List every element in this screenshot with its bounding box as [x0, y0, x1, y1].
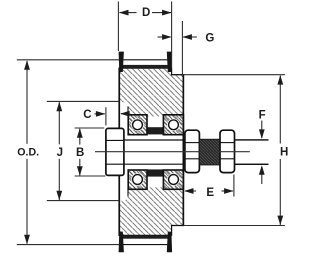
flange lip top-left [119, 52, 124, 72]
bore white region [120, 135, 183, 170]
svg-text:J: J [57, 147, 63, 159]
svg-text:B: B [76, 147, 84, 159]
bolt shank bottom edge [124, 163, 269, 165]
tooth band top (dark) [123, 65, 168, 68]
svg-text:H: H [280, 147, 288, 159]
hub recess channel (left, white) [120, 102, 128, 201]
svg-text:D: D [142, 7, 150, 19]
dimension O.D. [17, 60, 119, 245]
hatch top edge [119, 67, 172, 69]
svg-text:C: C [83, 109, 91, 121]
bolt shank top edge [124, 139, 269, 141]
svg-text:O.D.: O.D. [17, 146, 39, 158]
dimension E [184, 175, 234, 200]
threaded section [199, 139, 220, 165]
svg-text:G: G [205, 33, 214, 45]
pulley left face line [118, 68, 120, 236]
flange lip bottom-right [167, 232, 172, 253]
gap between bearings bottom (white) [148, 169, 163, 187]
body bottom face [171, 225, 184, 227]
hatch bottom edge [119, 234, 172, 236]
shaft centerline [95, 151, 250, 153]
dimension G [158, 21, 215, 74]
dimension D [118, 2, 171, 68]
gap between bearings top (white) [148, 117, 163, 135]
body top face [171, 74, 184, 76]
step vertical top [171, 68, 173, 76]
svg-text:F: F [259, 109, 266, 121]
flange tip line top [123, 59, 169, 61]
bearing top-right [163, 115, 183, 135]
pulley right face line [182, 74, 184, 226]
recess wall top [127, 107, 129, 115]
recess wall bottom [127, 189, 129, 197]
svg-text:E: E [206, 187, 214, 199]
flange lip bottom-left [119, 232, 124, 253]
dimension C [83, 107, 129, 125]
dimension B [75, 128, 106, 176]
hex nut right [220, 130, 235, 172]
pulley body section (hatched silhouette) [119, 68, 183, 235]
step vertical bottom [171, 225, 173, 236]
flange tip line bottom [123, 244, 169, 246]
dimension F [259, 109, 266, 184]
hex nut left [185, 130, 200, 172]
tooth band bottom (dark) [123, 235, 168, 238]
dimension J [47, 101, 120, 200]
dimension H [182, 75, 288, 226]
bearing bottom-left [128, 170, 147, 189]
bearing top-left [128, 115, 147, 135]
bearing spacer bottom [147, 169, 163, 176]
stud end [235, 139, 268, 141]
bearing spacer top [147, 127, 163, 134]
hex bolt head [106, 128, 124, 175]
flange lip top-right [167, 52, 172, 72]
bearing bottom-right [163, 170, 183, 189]
